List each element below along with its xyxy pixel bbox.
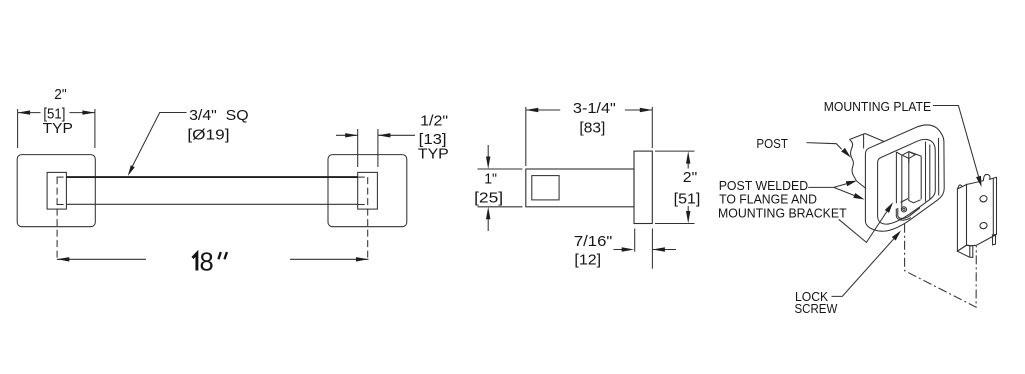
svg-text:SCREW: SCREW bbox=[795, 301, 839, 316]
svg-text:2": 2" bbox=[683, 169, 697, 186]
svg-text:MOUNTING BRACKET: MOUNTING BRACKET bbox=[718, 206, 847, 221]
svg-text:[Ø19]: [Ø19] bbox=[187, 126, 229, 143]
svg-text:[83]: [83] bbox=[579, 119, 605, 136]
svg-text:3-1/4": 3-1/4" bbox=[573, 100, 616, 117]
svg-text:1": 1" bbox=[484, 171, 497, 188]
svg-text:POST: POST bbox=[756, 136, 788, 151]
svg-text:TYP: TYP bbox=[43, 120, 73, 137]
svg-text:[25]: [25] bbox=[474, 189, 503, 206]
svg-text:MOUNTING PLATE: MOUNTING PLATE bbox=[824, 99, 931, 114]
svg-text:7/16": 7/16" bbox=[574, 233, 612, 250]
svg-text:2": 2" bbox=[54, 86, 66, 103]
svg-text:TYP: TYP bbox=[418, 146, 449, 163]
svg-text:[12]: [12] bbox=[574, 252, 601, 269]
svg-text:3/4" SQ: 3/4" SQ bbox=[189, 107, 249, 124]
svg-text:[51]: [51] bbox=[674, 191, 701, 208]
svg-text:1/2": 1/2" bbox=[420, 112, 448, 129]
svg-text:8: 8 bbox=[200, 249, 214, 277]
svg-text:TO FLANGE AND: TO FLANGE AND bbox=[719, 192, 817, 207]
